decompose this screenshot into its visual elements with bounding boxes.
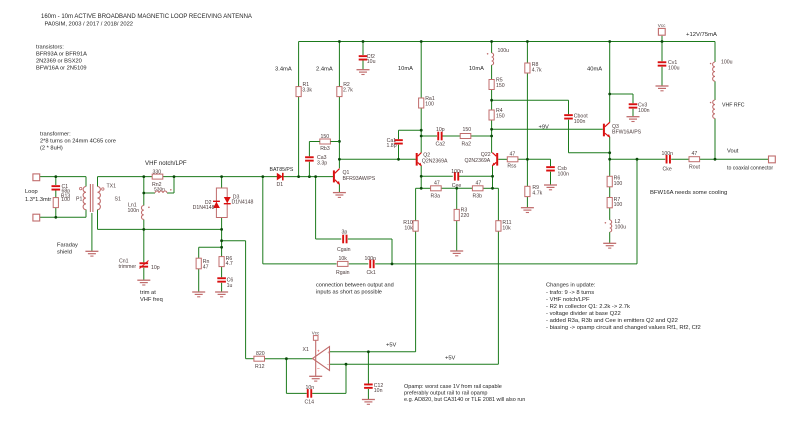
wire L2 to ground xyxy=(609,232,611,243)
inductor VHF RFC xyxy=(713,100,715,118)
svg-text:47: 47 xyxy=(434,180,440,186)
junction xyxy=(420,187,423,190)
svg-text:2.4mA: 2.4mA xyxy=(316,67,333,73)
wire R11 column xyxy=(497,188,499,220)
junction xyxy=(491,175,494,178)
svg-text:inputs as short as possible: inputs as short as possible xyxy=(316,289,382,295)
capacitor C1 xyxy=(52,185,61,187)
svg-text:2.7k: 2.7k xyxy=(343,88,353,94)
svg-text:VHF notch/LPF: VHF notch/LPF xyxy=(145,160,187,167)
wire Q1 collector xyxy=(338,159,340,168)
junction xyxy=(608,158,611,161)
wire ground rail below transformer xyxy=(98,228,222,230)
svg-text:Loop: Loop xyxy=(25,189,38,195)
wire Q2 emitter column xyxy=(420,166,422,189)
wire C12 branch xyxy=(367,352,369,384)
wire R3a/R3b emitter resistors xyxy=(416,187,431,189)
wire Csb branch xyxy=(518,158,551,160)
wire top +12V rail xyxy=(299,41,715,43)
capacitor C6 xyxy=(217,277,226,279)
svg-text:X1: X1 xyxy=(303,347,309,353)
wire opamp - input to R11 xyxy=(330,363,499,365)
ground Csb xyxy=(544,184,557,186)
svg-text:Cee: Cee xyxy=(452,183,462,189)
junction xyxy=(420,175,423,178)
svg-text:Ra2: Ra2 xyxy=(462,142,472,148)
svg-text:BFW16A/PS: BFW16A/PS xyxy=(612,129,642,135)
capacitor Ck1 xyxy=(369,260,371,269)
svg-text:10p: 10p xyxy=(436,127,445,133)
wire Ca1 top xyxy=(399,129,422,131)
ground Cv1 xyxy=(656,85,669,87)
junction xyxy=(608,151,611,154)
svg-text:D1N4148: D1N4148 xyxy=(193,205,215,211)
wire D1 feedback column xyxy=(262,177,264,264)
wire Cgain branch xyxy=(315,177,317,239)
svg-text:10p: 10p xyxy=(151,265,160,271)
resistor R1 xyxy=(296,87,301,97)
junction xyxy=(338,158,341,161)
svg-text:100: 100 xyxy=(61,197,70,203)
svg-text:47: 47 xyxy=(476,180,482,186)
wire loop port bottom xyxy=(40,216,86,218)
junction xyxy=(220,228,223,231)
resistor Rout xyxy=(689,157,700,162)
ground Cv3 xyxy=(627,116,640,118)
resistor Rgain xyxy=(337,261,348,266)
svg-text:330: 330 xyxy=(153,170,162,176)
junction xyxy=(345,363,348,366)
junction xyxy=(220,246,223,249)
svg-text:transistors:: transistors: xyxy=(36,45,64,51)
ground Cn1 xyxy=(137,279,150,281)
svg-text:- added R3a, R3b and Cee in em: - added R3a, R3b and Cee in emitters Q2 … xyxy=(546,318,678,324)
svg-text:100u: 100u xyxy=(615,224,627,230)
svg-text:- trafo: 9 -> 8 turns: - trafo: 9 -> 8 turns xyxy=(546,290,594,296)
wire Vcc column xyxy=(661,36,663,62)
junction xyxy=(490,128,493,131)
wire R6 to R7 xyxy=(609,187,611,198)
transformer TX1 primary P1 xyxy=(83,187,86,210)
svg-text:+5V: +5V xyxy=(386,343,396,349)
svg-text:10k: 10k xyxy=(339,256,348,262)
wire R3 column xyxy=(456,188,458,209)
capacitor Cf2 xyxy=(359,55,368,57)
svg-text:+: + xyxy=(317,349,320,354)
resistor R3a xyxy=(431,186,442,191)
svg-text:10k: 10k xyxy=(502,225,511,231)
wire transformer secondary xyxy=(97,177,99,187)
svg-text:trim at: trim at xyxy=(140,290,156,296)
junction xyxy=(391,263,394,266)
resistor Rss xyxy=(507,157,518,162)
diode pair box D2 D3 xyxy=(216,188,227,218)
resistor R3b xyxy=(472,186,483,191)
junction xyxy=(491,187,494,190)
junction xyxy=(338,40,341,43)
svg-text:100n: 100n xyxy=(558,171,570,177)
svg-text:3.3p: 3.3p xyxy=(317,160,327,166)
capacitor Cgain xyxy=(342,235,344,244)
junction xyxy=(420,135,423,138)
svg-text:R12: R12 xyxy=(255,364,265,370)
wire Ca1 bottom xyxy=(398,145,400,160)
port Vout xyxy=(769,156,776,163)
ground Q1 emitter xyxy=(333,192,346,194)
junction xyxy=(608,93,611,96)
svg-text:BFW16A or 2N5109: BFW16A or 2N5109 xyxy=(36,66,87,72)
wire Faraday shield to ground xyxy=(91,213,93,251)
svg-text:100u: 100u xyxy=(498,48,510,54)
wire feedback right xyxy=(312,392,346,394)
junction xyxy=(297,175,300,178)
svg-text:Rss: Rss xyxy=(507,163,516,169)
resistor Ra1 xyxy=(419,98,424,108)
inductor Ln1 xyxy=(141,206,143,220)
junction xyxy=(285,357,288,360)
svg-text:connection between output and: connection between output and xyxy=(316,283,394,289)
resistor Ra2 xyxy=(460,134,471,139)
resistor R11 xyxy=(496,221,501,232)
svg-text:e.g. AD820, but CA3140 or TLE: e.g. AD820, but CA3140 or TLE 2081 will … xyxy=(404,397,525,403)
svg-text:Vout: Vout xyxy=(727,149,739,155)
svg-text:+: + xyxy=(327,351,330,356)
wire +9V Q3 base xyxy=(492,128,603,130)
junction xyxy=(142,228,145,231)
capacitor Ca1 xyxy=(394,139,403,141)
svg-text:BFW16A needs some cooling: BFW16A needs some cooling xyxy=(650,190,727,196)
svg-text:2N2369 or BSX20: 2N2369 or BSX20 xyxy=(36,59,82,65)
svg-text:P1: P1 xyxy=(76,197,82,203)
junction xyxy=(54,216,57,219)
diode D2 D1N4148 xyxy=(213,202,220,208)
svg-text:820: 820 xyxy=(256,351,265,357)
junction xyxy=(490,40,493,43)
resistor R7 xyxy=(607,198,612,208)
ground R9 xyxy=(521,207,534,209)
junction xyxy=(261,175,264,178)
svg-text:100n: 100n xyxy=(638,108,650,114)
transformer TX1 secondary S1 xyxy=(98,187,101,210)
inductor RFC1 100u xyxy=(713,62,715,81)
wire feedback left xyxy=(285,359,287,394)
svg-text:Ca2: Ca2 xyxy=(436,142,446,148)
svg-text:Q1: Q1 xyxy=(343,170,350,176)
ground C6 xyxy=(215,291,228,293)
junction xyxy=(455,187,458,190)
junction xyxy=(220,175,223,178)
svg-text:transformer:: transformer: xyxy=(40,131,71,137)
junction xyxy=(308,175,311,178)
svg-text:S1: S1 xyxy=(115,197,121,203)
junction xyxy=(714,158,717,161)
svg-text:100: 100 xyxy=(425,102,434,108)
wire D2/D3 bottom stub xyxy=(221,218,223,230)
svg-text:1.3*1.3mtr: 1.3*1.3mtr xyxy=(25,197,51,203)
wire loop port top xyxy=(40,176,86,178)
junction xyxy=(420,40,423,43)
svg-text:1.8p: 1.8p xyxy=(386,143,396,149)
wire opamp + input to R10 xyxy=(330,351,416,353)
svg-text:40mA: 40mA xyxy=(587,67,602,73)
wire Cv3 branch xyxy=(610,93,633,95)
svg-text:Ck1: Ck1 xyxy=(367,270,376,276)
svg-text:TX1: TX1 xyxy=(107,184,117,190)
wire output connection down xyxy=(636,159,638,264)
svg-text:530n: 530n xyxy=(154,187,165,193)
transistor Q22 2N2369 (mirrored) xyxy=(496,153,498,166)
svg-text:- biasing -> opamp circuit and: - biasing -> opamp circuit and changed v… xyxy=(546,325,701,331)
wire R1 column xyxy=(298,42,300,87)
wire R8 column xyxy=(526,42,528,64)
svg-text:10u: 10u xyxy=(367,59,376,65)
capacitor C12 xyxy=(364,384,373,386)
svg-text:Rgain: Rgain xyxy=(336,270,350,276)
wire D2/D3 top stub xyxy=(221,177,223,188)
port loop terminal bottom xyxy=(33,214,40,221)
wire output line xyxy=(610,158,666,160)
wire Ln1 branch xyxy=(143,193,145,206)
svg-text:150: 150 xyxy=(496,83,505,89)
capacitor Ca2 xyxy=(437,132,439,141)
ground C12 xyxy=(362,399,375,401)
transistor Q3 BFW16A xyxy=(603,124,605,137)
svg-text:R3b: R3b xyxy=(473,193,483,199)
svg-text:Changes in update:: Changes in update: xyxy=(546,283,596,289)
svg-text:- voltage divider at base Q22: - voltage divider at base Q22 xyxy=(546,311,621,317)
capacitor Csb xyxy=(546,166,555,168)
resistor Rn2 notch xyxy=(152,174,163,179)
wire Cf2 column xyxy=(362,42,364,56)
capacitor Cee xyxy=(454,172,456,181)
svg-text:D1: D1 xyxy=(277,182,284,188)
wire VHF RFC column xyxy=(714,42,716,63)
inductor L1 100u xyxy=(492,53,494,65)
svg-text:Q2N2369A: Q2N2369A xyxy=(422,158,448,164)
op-amp X1 xyxy=(313,347,330,371)
transistor Q1 BFR93A xyxy=(333,170,335,182)
junction xyxy=(367,350,370,353)
svg-text:220: 220 xyxy=(461,213,470,219)
wire R2 column xyxy=(338,42,340,87)
junction xyxy=(608,40,611,43)
wire Cn1 trimmer branch xyxy=(143,229,145,262)
capacitor Cke xyxy=(666,155,668,164)
resistor Rn xyxy=(196,258,201,269)
svg-text:−: − xyxy=(327,363,330,368)
svg-text:150: 150 xyxy=(463,127,472,133)
svg-text:4.7: 4.7 xyxy=(226,261,233,267)
wire C1/R13 column xyxy=(55,177,57,185)
wire R6 to C6 xyxy=(221,267,223,278)
svg-text:Vcc: Vcc xyxy=(658,23,666,28)
resistor R3 xyxy=(454,209,459,220)
svg-text:100: 100 xyxy=(614,181,623,187)
svg-text:100u: 100u xyxy=(668,65,680,71)
wire Ra1 column xyxy=(420,42,422,99)
junction xyxy=(338,140,341,143)
junction xyxy=(397,158,400,161)
resistor R8 xyxy=(525,63,530,73)
port Vcc opamp xyxy=(313,336,318,341)
svg-text:100n: 100n xyxy=(128,208,140,214)
junction xyxy=(661,40,664,43)
svg-text:trimmer: trimmer xyxy=(119,264,137,270)
wire R9 column xyxy=(526,159,528,186)
junction xyxy=(173,175,176,178)
svg-text:Opamp: worst case 1V from rail: Opamp: worst case 1V from rail capable xyxy=(404,384,502,390)
ground L2 xyxy=(603,242,616,244)
inductor polarity marks xyxy=(487,53,489,55)
diode D3 D1N4148 xyxy=(224,197,231,203)
wire Cee left xyxy=(421,175,453,177)
svg-text:Q2N2369A: Q2N2369A xyxy=(465,158,491,164)
svg-text:4.7k: 4.7k xyxy=(532,67,542,73)
ground Faraday shield xyxy=(85,250,98,252)
svg-text:Vcc: Vcc xyxy=(312,331,320,336)
resistor R5 xyxy=(489,80,494,90)
wire Q3 collector column xyxy=(609,42,611,123)
ground Cf2 xyxy=(357,69,370,71)
resistor R4 xyxy=(489,110,494,120)
svg-text:Rout: Rout xyxy=(689,165,701,171)
wire Rgain/Ck1 line xyxy=(263,263,337,265)
svg-text:R3a: R3a xyxy=(431,193,441,199)
capacitor Ca3 xyxy=(308,142,310,157)
svg-text:150: 150 xyxy=(496,114,505,120)
svg-text:47: 47 xyxy=(510,151,516,157)
junction xyxy=(142,192,145,195)
junction xyxy=(420,129,423,132)
svg-text:47: 47 xyxy=(692,151,698,157)
junction xyxy=(142,175,145,178)
capacitor C14 xyxy=(307,389,309,398)
svg-text:Faraday: Faraday xyxy=(57,243,78,249)
svg-text:4.7k: 4.7k xyxy=(532,190,542,196)
svg-text:- R2 in collector Q1: 2.2k ->: - R2 in collector Q1: 2.2k -> 2.7k xyxy=(546,304,630,310)
svg-text:10mA: 10mA xyxy=(469,66,484,72)
svg-text:BFR93A or BFR91A: BFR93A or BFR91A xyxy=(36,52,87,58)
wire bootstrap Cboot top xyxy=(492,99,569,101)
junction xyxy=(220,239,223,242)
wire R12 to opamp output xyxy=(264,358,312,360)
junction xyxy=(490,135,493,138)
svg-text:+12V/75mA: +12V/75mA xyxy=(686,32,717,38)
svg-text:150: 150 xyxy=(321,134,330,140)
wire to opamp feed xyxy=(222,240,246,242)
svg-text:−: − xyxy=(317,367,320,372)
junction xyxy=(490,99,493,102)
svg-text:PA0SIM, 2003 / 2017 / 2018/ 20: PA0SIM, 2003 / 2017 / 2018/ 2022 xyxy=(45,22,134,28)
wire R12 input xyxy=(246,358,254,360)
wire R7 to L2 xyxy=(609,208,611,220)
svg-text:Cgain: Cgain xyxy=(337,247,351,253)
svg-text:10n: 10n xyxy=(306,385,315,391)
svg-text:preferably output rail to rail: preferably output rail to rail opamp xyxy=(404,391,487,397)
svg-text:shield: shield xyxy=(57,250,72,256)
capacitor Cboot xyxy=(564,114,573,116)
ground opamp xyxy=(309,375,322,377)
wire Cee right xyxy=(458,175,492,177)
svg-text:10k: 10k xyxy=(404,225,413,231)
wire main signal line to Q1 base xyxy=(98,176,334,178)
svg-text:(2 * 8uH): (2 * 8uH) xyxy=(40,145,63,151)
resistor R6 output xyxy=(607,176,612,187)
inductor L2 100u xyxy=(610,220,612,232)
svg-text:100: 100 xyxy=(614,202,623,208)
svg-text:- VHF notch/LPF: - VHF notch/LPF xyxy=(546,297,590,303)
svg-text:Cke: Cke xyxy=(663,167,672,173)
ground Rn xyxy=(192,291,205,293)
svg-text:100n: 100n xyxy=(451,169,463,175)
svg-text:BAT85/PS: BAT85/PS xyxy=(270,167,294,173)
wire Ca2/Ra2 link xyxy=(421,135,437,137)
resistor R9 xyxy=(525,186,530,196)
wire bootstrap Cboot bottom xyxy=(568,120,570,153)
wire VHF notch parallel loop xyxy=(143,177,145,193)
transistor Q2 2N2369 xyxy=(416,153,418,166)
svg-text:C14: C14 xyxy=(305,400,315,406)
diode D1 BAT85 xyxy=(277,173,283,181)
svg-text:+5V: +5V xyxy=(445,356,455,362)
wire Rn branch xyxy=(199,246,222,248)
ground R3 xyxy=(450,250,463,252)
svg-text:3.3k: 3.3k xyxy=(302,88,312,94)
capacitor Cv3 xyxy=(629,103,638,105)
wire transformer primary xyxy=(85,177,87,187)
junction xyxy=(314,175,317,178)
svg-text:3p: 3p xyxy=(342,230,348,236)
resistor Rb3 xyxy=(320,139,331,144)
svg-text:VHF freq: VHF freq xyxy=(140,297,163,303)
junction xyxy=(526,40,529,43)
svg-text:+9V: +9V xyxy=(539,124,549,130)
wire Q2 base xyxy=(339,158,416,160)
resistor R13 xyxy=(53,198,58,208)
port Vcc xyxy=(658,28,665,35)
wire Q1 emitter to ground xyxy=(338,184,340,192)
inductor Ln2 notch xyxy=(155,191,167,193)
wire C6 to ground xyxy=(221,283,223,292)
junction xyxy=(636,158,639,161)
wire Q3 emitter column xyxy=(609,137,611,176)
wire L1/R5/R4 column xyxy=(491,42,493,54)
capacitor Cn1 trimmer xyxy=(140,262,149,264)
wire Q22 base to Rss xyxy=(498,158,507,160)
svg-text:1u: 1u xyxy=(227,283,233,289)
svg-text:47: 47 xyxy=(203,264,209,270)
transformer polarity dots xyxy=(80,187,82,189)
wire D2/D3 node down xyxy=(221,229,223,256)
svg-text:100n: 100n xyxy=(574,119,586,125)
svg-text:100n: 100n xyxy=(365,256,377,262)
junction xyxy=(362,40,365,43)
wire Q22 emitter column xyxy=(492,166,494,189)
svg-text:100u: 100u xyxy=(721,60,733,66)
resistor R2 xyxy=(337,87,342,97)
capacitor Cv1 xyxy=(658,61,667,63)
junction xyxy=(54,175,57,178)
svg-text:10n: 10n xyxy=(374,388,383,394)
svg-text:Rb3: Rb3 xyxy=(320,146,330,152)
junction xyxy=(526,158,529,161)
svg-text:to coaxial connector: to coaxial connector xyxy=(727,166,773,172)
svg-text:10mA: 10mA xyxy=(398,66,413,72)
svg-text:VHF RFC: VHF RFC xyxy=(722,103,745,109)
svg-text:100n: 100n xyxy=(662,151,674,157)
port loop terminal top xyxy=(33,174,40,181)
wire R10 column xyxy=(415,188,417,220)
